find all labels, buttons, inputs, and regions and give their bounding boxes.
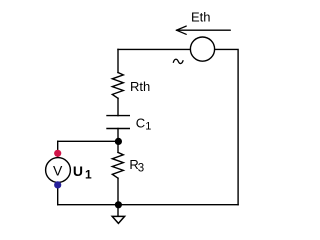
svg-text:U: U: [73, 163, 83, 179]
svg-text:3: 3: [138, 162, 144, 174]
svg-text:Rth: Rth: [130, 79, 150, 94]
svg-text:C: C: [136, 115, 145, 130]
svg-text:Eth: Eth: [191, 10, 211, 25]
svg-text:1: 1: [145, 121, 151, 133]
svg-text:1: 1: [85, 167, 92, 181]
svg-text:V: V: [53, 162, 63, 178]
